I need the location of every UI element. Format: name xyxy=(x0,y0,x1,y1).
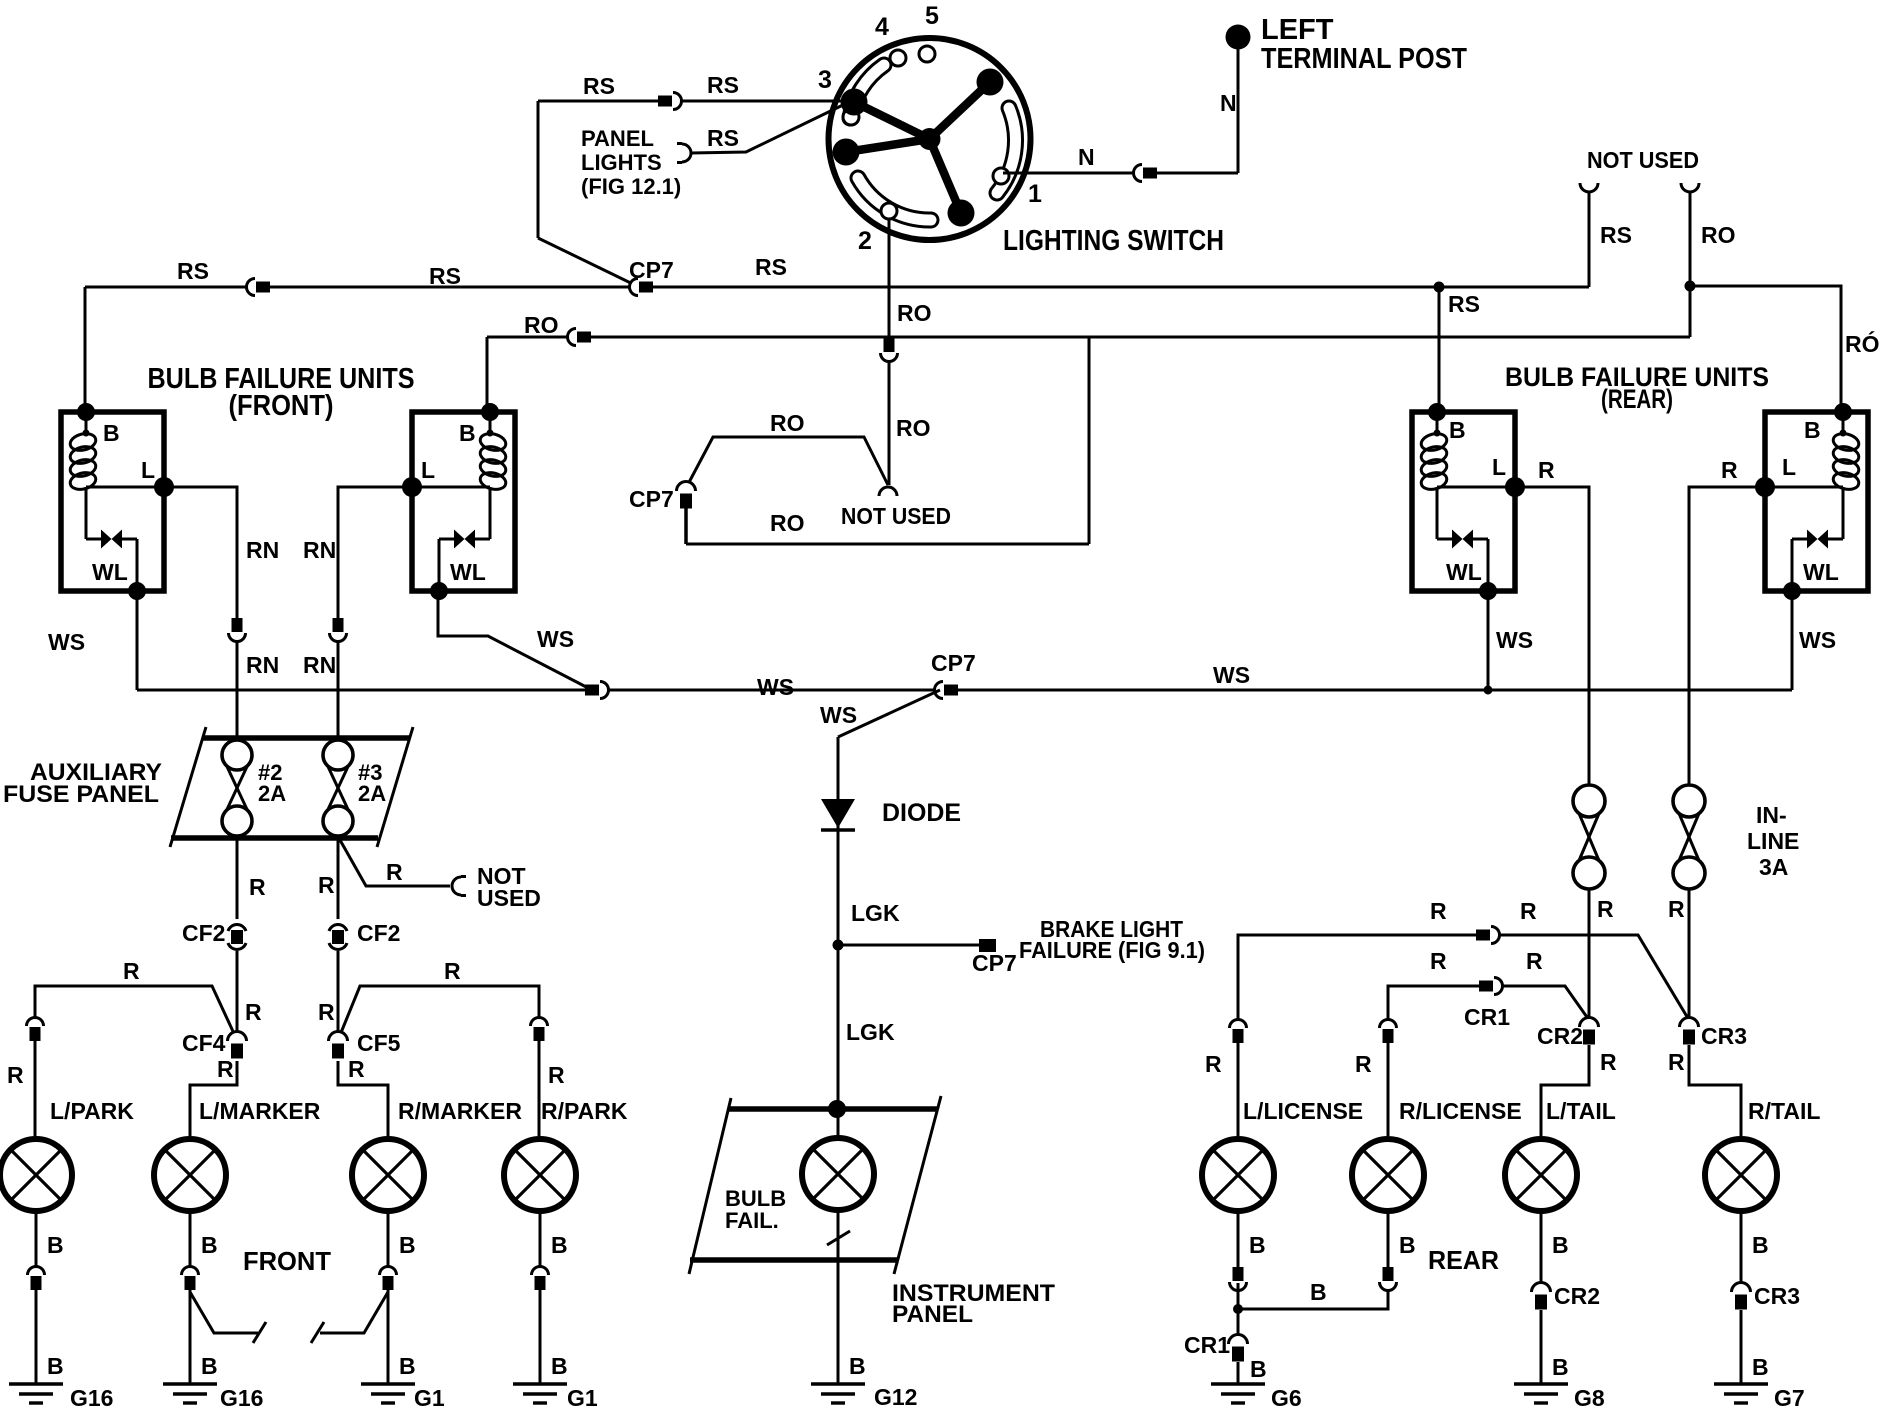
in-line fuse right 3A xyxy=(1673,785,1705,889)
wire WS diagonal to diode xyxy=(838,690,940,737)
wire B R/TAIL to ground xyxy=(1740,1310,1743,1384)
label L/TAIL xyxy=(1546,1098,1616,1124)
svg-text:RO: RO xyxy=(1701,222,1736,248)
connector CF5 xyxy=(329,1032,348,1059)
svg-text:WS: WS xyxy=(757,674,794,700)
label B instrument xyxy=(849,1353,866,1379)
lighting switch slot upper-left xyxy=(850,65,884,118)
lighting switch U1 body xyxy=(829,38,1031,240)
svg-text:CP7: CP7 xyxy=(931,650,976,676)
wire R CR2 to L/TAIL xyxy=(1541,1045,1589,1136)
label B L/MARKER xyxy=(201,1232,218,1258)
wire R to L/PARK xyxy=(34,1041,37,1136)
svg-text:B: B xyxy=(551,1353,568,1379)
svg-text:R: R xyxy=(318,872,335,898)
svg-text:R: R xyxy=(318,999,335,1025)
connector B L/PARK xyxy=(28,1266,45,1290)
svg-text:L/PARK: L/PARK xyxy=(50,1098,134,1124)
label RO bridge xyxy=(770,410,805,436)
label CF5 xyxy=(357,1030,401,1056)
connector on RS top wire xyxy=(658,93,682,110)
label R below CR3 xyxy=(1668,1049,1685,1075)
svg-text:NOT USED: NOT USED xyxy=(841,503,951,529)
wire B below L/MARKER xyxy=(189,1211,192,1270)
wire R not-used branch xyxy=(340,840,450,886)
connector CR1 on R line2 xyxy=(1479,978,1503,995)
svg-text:RO: RO xyxy=(896,415,931,441)
ground G12 xyxy=(811,1384,917,1408)
svg-text:B: B xyxy=(103,420,120,446)
svg-text:B: B xyxy=(399,1232,416,1258)
svg-text:B: B xyxy=(1752,1232,1769,1258)
not-used arc RO mid xyxy=(879,486,897,500)
label R below left fuse xyxy=(1597,896,1614,922)
label CR2 xyxy=(1537,1023,1583,1049)
wire B below R/LICENSE xyxy=(1387,1211,1390,1268)
label R/PARK xyxy=(541,1098,628,1124)
lamp L/MARKER xyxy=(154,1139,226,1211)
label R rear-right xyxy=(1721,457,1738,483)
svg-text:RO: RO xyxy=(770,410,805,436)
label RO bottom xyxy=(770,510,805,536)
wire LGK vertical xyxy=(837,737,840,1109)
label CF2 left xyxy=(182,920,225,946)
label CF4 xyxy=(182,1030,226,1056)
connector CP7 RO xyxy=(677,482,696,509)
label RN left lower xyxy=(246,652,279,678)
svg-text:CP7: CP7 xyxy=(629,486,674,512)
label BULB FAILURE UNITS (REAR) xyxy=(1505,362,1769,414)
label CR3 bottom xyxy=(1754,1283,1800,1309)
label R rear-left xyxy=(1538,457,1555,483)
connector B R/LICENSE xyxy=(1380,1267,1397,1291)
connector CF2 right xyxy=(329,919,347,955)
bulb failure unit front-right labels xyxy=(421,420,486,585)
connector CR2 bottom xyxy=(1532,1283,1551,1310)
svg-text:R: R xyxy=(1600,1049,1617,1075)
label R R/LICENSE xyxy=(1355,1051,1372,1077)
label #3 2A xyxy=(358,760,386,806)
wire R CF5 to R/MARKER xyxy=(338,1061,388,1136)
svg-text:LGK: LGK xyxy=(846,1019,895,1045)
label FRONT xyxy=(243,1246,331,1276)
label WS front-right xyxy=(537,626,574,652)
wire R CF4 to L/MARKER xyxy=(190,1061,237,1136)
svg-text:B: B xyxy=(201,1353,218,1379)
switch stub right xyxy=(311,1292,388,1343)
label B R/LICENSE xyxy=(1399,1232,1416,1258)
connector R/LICENSE feed xyxy=(1380,1019,1397,1043)
svg-text:3: 3 xyxy=(818,66,832,94)
svg-text:TERMINAL POST: TERMINAL POST xyxy=(1261,43,1467,75)
wire R right branch xyxy=(338,986,539,1040)
bulb failure unit rear-right labels xyxy=(1782,417,1839,585)
svg-text:WS: WS xyxy=(48,629,85,655)
junction RO rear xyxy=(1685,281,1696,292)
connector B R/MARKER xyxy=(380,1266,397,1290)
svg-text:B: B xyxy=(1399,1232,1416,1258)
label R fuse3 xyxy=(318,872,335,898)
label RS panel lights xyxy=(707,125,739,151)
wire panel lights RS xyxy=(691,104,845,153)
wire R left branch xyxy=(35,986,237,1040)
lighting switch slot bottom xyxy=(858,178,931,220)
lamp L/TAIL xyxy=(1505,1139,1577,1211)
instrument bulb BULB FAIL xyxy=(802,1109,874,1210)
not-used arc fuse xyxy=(450,877,466,896)
svg-text:R/TAIL: R/TAIL xyxy=(1748,1098,1820,1124)
svg-text:G8: G8 xyxy=(1574,1385,1605,1408)
lighting switch slot window 3 xyxy=(843,109,859,125)
wire RO bottom horizontal xyxy=(686,543,1089,546)
svg-text:G1: G1 xyxy=(567,1385,598,1408)
wire RS left vertical to front-left B xyxy=(84,287,87,412)
wire WS from front-left WL xyxy=(136,591,139,690)
label REAR xyxy=(1428,1245,1499,1275)
svg-text:B: B xyxy=(1752,1354,1769,1380)
connector on right RN xyxy=(330,618,347,642)
svg-text:CR2: CR2 xyxy=(1554,1283,1600,1309)
svg-text:L/LICENSE: L/LICENSE xyxy=(1243,1098,1363,1124)
wire B below R/TAIL xyxy=(1740,1211,1743,1290)
connector B L/LICENSE xyxy=(1230,1267,1247,1291)
wire RO to NOT USED stub xyxy=(1689,192,1692,286)
svg-text:G16: G16 xyxy=(70,1385,113,1408)
svg-text:LGK: LGK xyxy=(851,900,900,926)
label WS mid-right xyxy=(1213,662,1250,688)
svg-text:N: N xyxy=(1078,144,1095,170)
svg-text:B: B xyxy=(201,1232,218,1258)
connector left park xyxy=(27,1017,44,1041)
wire RO from switch pin 2 xyxy=(888,218,891,485)
connector CF2 left xyxy=(228,919,246,955)
connector on RO front-right xyxy=(567,329,591,346)
label #2 2A xyxy=(258,760,286,806)
svg-text:B: B xyxy=(1249,1232,1266,1258)
svg-text:B: B xyxy=(1449,417,1466,443)
svg-text:RS: RS xyxy=(177,258,209,284)
fuse F3 2A xyxy=(323,740,353,836)
label CF2 right xyxy=(357,920,400,946)
svg-text:R: R xyxy=(1721,457,1738,483)
connector on RO vertical xyxy=(881,338,898,362)
svg-text:CP7: CP7 xyxy=(972,950,1017,976)
aux fuse panel frame xyxy=(170,727,413,847)
wire RS to NOT USED stub xyxy=(1588,192,1591,287)
svg-text:N: N xyxy=(1220,90,1237,116)
connector CP7 on WS xyxy=(934,682,958,699)
svg-text:B: B xyxy=(1804,417,1821,443)
lamp L/PARK xyxy=(0,1139,72,1211)
svg-text:CR2: CR2 xyxy=(1537,1023,1583,1049)
label R above CF4 xyxy=(245,999,262,1025)
connector CP7 on RS main xyxy=(629,279,653,296)
label RS right of CP7 xyxy=(755,254,787,280)
instrument panel frame xyxy=(689,1096,941,1274)
label CR1 line2 xyxy=(1464,1004,1510,1030)
bulb failure unit rear-left xyxy=(1412,403,1525,600)
wire R to CF5 xyxy=(337,951,340,1040)
svg-text:RÓ: RÓ xyxy=(1845,330,1880,357)
junction LGK xyxy=(833,940,844,951)
wire RN from front-left L xyxy=(164,487,237,740)
label WS mid-left xyxy=(757,674,794,700)
label CR2 bottom xyxy=(1554,1283,1600,1309)
label RN left upper xyxy=(246,537,279,563)
label R fuse2 xyxy=(249,874,266,900)
ground G16 L/PARK xyxy=(9,1384,113,1408)
wire RS top horizontal to pin 3 xyxy=(538,100,851,103)
label B R/PARK xyxy=(551,1232,568,1258)
wire B below R/MARKER xyxy=(387,1211,390,1270)
left terminal post xyxy=(1226,25,1251,50)
svg-text:CR1: CR1 xyxy=(1464,1004,1510,1030)
svg-text:RN: RN xyxy=(303,652,336,678)
svg-text:RN: RN xyxy=(246,652,279,678)
label R not-used xyxy=(386,859,403,885)
label NOT USED mid xyxy=(841,503,951,529)
wire LGK branch to CP7 xyxy=(838,944,986,947)
label R right branch xyxy=(444,958,461,984)
connector CR3 xyxy=(1680,1018,1699,1045)
svg-text:CF4: CF4 xyxy=(182,1030,226,1056)
label CP7 on WS xyxy=(931,650,976,676)
svg-text:RS: RS xyxy=(1448,291,1480,317)
label WS rear-left xyxy=(1496,627,1533,653)
wire WS main horizontal xyxy=(137,689,1792,692)
svg-text:(FRONT): (FRONT) xyxy=(229,390,334,422)
ground G16 L/MARKER xyxy=(163,1384,263,1408)
svg-text:WL: WL xyxy=(92,559,128,585)
label R line1 right xyxy=(1520,898,1537,924)
label RO far right xyxy=(1845,330,1880,357)
label DIODE xyxy=(882,799,961,827)
bulb failure unit rear-left labels xyxy=(1446,417,1506,585)
lamp R/LICENSE xyxy=(1352,1139,1424,1211)
label B above G6 xyxy=(1250,1356,1267,1382)
svg-text:B: B xyxy=(1552,1354,1569,1380)
svg-text:L: L xyxy=(421,457,435,483)
label CR1 bottom xyxy=(1184,1332,1230,1358)
wire RS diagonal to CP7 xyxy=(538,238,639,287)
label R below CR2 xyxy=(1600,1049,1617,1075)
wire WS from front-right WL xyxy=(438,591,592,690)
label RS top right xyxy=(707,72,739,98)
wire R to CF4 xyxy=(236,951,239,1040)
svg-text:RS: RS xyxy=(707,125,739,151)
wire R to R/LICENSE xyxy=(1387,1043,1390,1136)
svg-text:WS: WS xyxy=(537,626,574,652)
wire R from rear-left L xyxy=(1516,487,1589,785)
svg-text:LIGHTING SWITCH: LIGHTING SWITCH xyxy=(1003,225,1224,257)
wire B L/TAIL to ground xyxy=(1540,1310,1543,1384)
label BRAKE LIGHT FAILURE xyxy=(1019,916,1205,963)
ground G7 xyxy=(1714,1384,1805,1408)
svg-text:CF2: CF2 xyxy=(182,920,225,946)
in-line fuse left 3A xyxy=(1573,785,1605,889)
lamp R/MARKER xyxy=(352,1139,424,1211)
connector right park xyxy=(531,1017,548,1041)
wire B to ground L/MARKER xyxy=(189,1288,192,1384)
wire B below L/PARK xyxy=(35,1211,38,1270)
junction WS rear xyxy=(1484,686,1493,695)
svg-text:RS: RS xyxy=(707,72,739,98)
bulb failure unit front-left xyxy=(61,403,174,600)
label WS rear-right xyxy=(1799,627,1836,653)
label CP7 left mid xyxy=(629,486,674,512)
label B L/PARK xyxy=(47,1232,64,1258)
lamp L/LICENSE xyxy=(1202,1139,1274,1211)
svg-text:R: R xyxy=(548,1062,565,1088)
svg-text:RN: RN xyxy=(246,537,279,563)
wire B L/LICENSE to CR1 xyxy=(1237,1283,1240,1342)
connector CR2 xyxy=(1580,1018,1599,1045)
lighting switch rotor xyxy=(833,69,1004,227)
ground G1 R/PARK xyxy=(513,1384,598,1408)
ground G6 xyxy=(1211,1384,1302,1408)
svg-text:R: R xyxy=(386,859,403,885)
lighting switch pin label 2 xyxy=(858,227,872,255)
svg-text:RO: RO xyxy=(897,300,932,326)
label R/MARKER xyxy=(398,1098,522,1124)
fuse F2 2A xyxy=(222,740,252,836)
label BULB FAILURE UNITS (FRONT) xyxy=(148,363,415,422)
svg-text:3A: 3A xyxy=(1759,854,1788,880)
label LGK upper xyxy=(851,900,900,926)
svg-text:REAR: REAR xyxy=(1428,1245,1499,1275)
lighting switch pin label 3 xyxy=(818,66,832,94)
svg-text:R/LICENSE: R/LICENSE xyxy=(1399,1098,1522,1124)
label RS main far-left xyxy=(177,258,209,284)
panel lights connector arc xyxy=(677,144,693,163)
wire below instrument bulb xyxy=(827,1212,850,1260)
wire RO riser xyxy=(1088,337,1091,544)
label RO stub xyxy=(1701,222,1736,248)
label PANEL LIGHTS (FIG 12.1) xyxy=(581,126,681,199)
svg-text:(FIG 12.1): (FIG 12.1) xyxy=(581,174,681,199)
svg-text:R: R xyxy=(1430,948,1447,974)
svg-text:R: R xyxy=(1668,1049,1685,1075)
label R line2 right xyxy=(1526,948,1543,974)
svg-text:G6: G6 xyxy=(1271,1385,1302,1408)
label RO upper xyxy=(897,300,932,326)
lighting switch pin label 4 xyxy=(875,13,889,41)
svg-text:R: R xyxy=(217,1056,234,1082)
svg-text:RO: RO xyxy=(524,312,559,338)
svg-text:USED: USED xyxy=(477,885,541,911)
svg-text:B: B xyxy=(1310,1279,1327,1305)
label RS top left xyxy=(583,73,615,99)
connector on WS left xyxy=(585,682,609,699)
label B lower L/PARK xyxy=(47,1353,64,1379)
wire R below fuse3 xyxy=(337,838,340,922)
wire RN from front-right L xyxy=(338,487,413,740)
wire RS down to rear-left B xyxy=(1438,287,1441,412)
label R/LICENSE xyxy=(1399,1098,1522,1124)
wire R CR3 to R/TAIL xyxy=(1689,1045,1741,1136)
lighting switch small hole B xyxy=(919,46,935,62)
svg-text:R/MARKER: R/MARKER xyxy=(398,1098,522,1124)
svg-text:G16: G16 xyxy=(220,1385,263,1408)
label R below CF4 xyxy=(217,1056,234,1082)
svg-text:2A: 2A xyxy=(358,781,386,806)
svg-text:CF5: CF5 xyxy=(357,1030,401,1056)
svg-text:R: R xyxy=(444,958,461,984)
svg-text:R: R xyxy=(1355,1051,1372,1077)
svg-text:B: B xyxy=(551,1232,568,1258)
wire RS main horizontal xyxy=(85,286,1589,289)
wire R line1 xyxy=(1238,935,1689,1024)
label R below CF5 xyxy=(348,1056,365,1082)
svg-text:B: B xyxy=(47,1353,64,1379)
svg-text:G7: G7 xyxy=(1774,1385,1805,1408)
svg-text:WS: WS xyxy=(1496,627,1533,653)
svg-text:WS: WS xyxy=(820,702,857,728)
wire B to ground R/MARKER xyxy=(387,1288,390,1384)
wire B below L/LICENSE xyxy=(1237,1211,1240,1268)
svg-text:CR3: CR3 xyxy=(1754,1283,1800,1309)
svg-text:RS: RS xyxy=(1600,222,1632,248)
wire R line2 xyxy=(1388,986,1589,1024)
wire N horizontal to switch pin 1 xyxy=(1003,172,1238,175)
bulb failure unit front-right xyxy=(402,403,515,600)
svg-text:R: R xyxy=(1205,1051,1222,1077)
connector on R line1 xyxy=(1476,927,1500,944)
label B lower R/MARKER xyxy=(399,1353,416,1379)
svg-text:PANEL: PANEL xyxy=(892,1301,973,1328)
connector on RS main left xyxy=(246,279,270,296)
bulb failure unit rear-right xyxy=(1755,403,1868,600)
svg-text:WS: WS xyxy=(1799,627,1836,653)
svg-text:RO: RO xyxy=(770,510,805,536)
svg-text:L: L xyxy=(1492,454,1506,480)
connector B L/MARKER xyxy=(182,1266,199,1290)
junction RS rear xyxy=(1434,282,1445,293)
label RO right of bridge xyxy=(896,415,931,441)
svg-text:R: R xyxy=(1430,898,1447,924)
svg-text:FAIL.: FAIL. xyxy=(725,1208,779,1233)
svg-text:R: R xyxy=(1668,896,1685,922)
junction B rear xyxy=(1233,1304,1243,1314)
label LIGHTING SWITCH xyxy=(1003,225,1224,257)
label R right park xyxy=(548,1062,565,1088)
svg-text:FUSE PANEL: FUSE PANEL xyxy=(3,781,159,808)
lighting switch slot window 2 xyxy=(881,203,897,219)
not-used arc RO xyxy=(1681,179,1699,193)
svg-text:CR1: CR1 xyxy=(1184,1332,1230,1358)
svg-text:CF2: CF2 xyxy=(357,920,400,946)
svg-text:G1: G1 xyxy=(414,1385,445,1408)
label CP7 brake xyxy=(972,950,1017,976)
label B R/MARKER xyxy=(399,1232,416,1258)
label B lower L/MARKER xyxy=(201,1353,218,1379)
label CR3 xyxy=(1701,1023,1747,1049)
lighting switch pin label 1 xyxy=(1028,180,1042,208)
wire R below fuse2 xyxy=(236,838,239,922)
label L/MARKER xyxy=(199,1098,321,1124)
lighting switch slot right xyxy=(997,108,1016,193)
wire B instrument to ground xyxy=(837,1260,840,1384)
lighting switch pin label 5 xyxy=(925,2,939,30)
switch stub left xyxy=(190,1292,266,1343)
svg-text:B: B xyxy=(459,420,476,446)
ground G8 xyxy=(1514,1384,1605,1408)
svg-text:R: R xyxy=(1597,896,1614,922)
wire R below left fuse xyxy=(1588,889,1591,1024)
svg-text:G12: G12 xyxy=(874,1384,917,1408)
svg-text:R: R xyxy=(245,999,262,1025)
wire RO to rear-right B xyxy=(1690,286,1841,412)
